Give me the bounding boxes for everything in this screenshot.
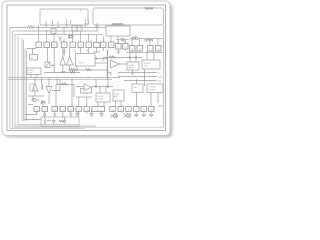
capacitor C13 (63, 117, 66, 124)
wire BC1 down1 (97, 102, 99, 107)
pin 4 (62, 42, 68, 48)
junction dot mb (76, 69, 77, 70)
capacitor C2 (32, 96, 35, 100)
junction dot D (95, 86, 97, 88)
svg-text:DRIVE: DRIVE (98, 99, 104, 101)
svg-text:SUPPLY: SUPPLY (149, 89, 157, 91)
bus divider vertical (107, 50, 109, 79)
op-amp OA1 (111, 60, 120, 68)
junction dot band2 (71, 79, 72, 80)
svg-text:PROT: PROT (129, 67, 135, 69)
wire stub pin9 (103, 36, 105, 42)
junction circle D1 (135, 37, 138, 40)
ferrite bead mark (63, 48, 65, 57)
resistor R2 (145, 40, 153, 42)
wire BC2 down1 (115, 101, 117, 107)
wire y72.5 (44, 72, 80, 74)
block box ML1 (30, 55, 38, 61)
wire Q2 down (48, 95, 50, 105)
resistor R5b (86, 68, 92, 70)
wire crystal left (28, 104, 33, 106)
wire diode row (116, 39, 129, 41)
wire y84.5 (56, 84, 74, 86)
wire stub B1 top (53, 28, 55, 29)
resistor R4 (52, 65, 56, 67)
wire bus A (y=27.5 full) (10, 27, 106, 29)
label above op-amp (110, 56, 116, 58)
bus band line 1 (8, 77, 120, 79)
pin 1 (36, 42, 42, 48)
pin 9 (101, 42, 107, 48)
wire stub pin12 (124, 40, 126, 44)
pin 26 (118, 107, 124, 112)
pin 20 (60, 107, 66, 112)
wire BC1 top1 (99, 87, 101, 94)
svg-text:REG: REG (134, 87, 139, 89)
wire BR1 top (136, 79, 138, 84)
pin 19 (52, 107, 58, 112)
wire stub pin4 (63, 28, 65, 43)
resistor R1 (28, 26, 35, 29)
pin 8 wide (94, 43, 101, 48)
page (2, 1, 170, 136)
wire T1 top (62, 48, 64, 58)
wire ML2 down1 (30, 75, 32, 78)
ground sym 2 (69, 114, 73, 117)
wire y86.5 (92, 86, 113, 88)
wire T1 bottom (62, 65, 64, 73)
ground pin11 (117, 49, 121, 53)
junction dot t3 (80, 27, 81, 28)
diode D1 (130, 36, 137, 41)
junction dot C (135, 57, 137, 59)
wire stub pin8 (96, 35, 98, 43)
wire stub pin2 (46, 31, 48, 42)
op-amp T1 (60, 57, 66, 65)
wire boxA left down (38, 25, 40, 28)
schematic frame (7, 5, 166, 131)
svg-text:SOUND: SOUND (144, 63, 151, 65)
svg-text:22k: 22k (74, 51, 77, 53)
pin 11 (116, 44, 122, 50)
svg-text:V.OUT: V.OUT (114, 93, 120, 95)
capacitor C6 (45, 21, 47, 28)
ground sym 1 (53, 114, 57, 117)
inductor L1 (62, 71, 66, 72)
junction dot t1 (38, 27, 39, 28)
wire stub pin16 (157, 39, 159, 46)
pin 2 (44, 42, 50, 48)
wire wrap1 (10, 28, 85, 129)
resistor R9 (62, 83, 68, 85)
wire into divider 1 (95, 58, 108, 60)
capacitor C7 (51, 21, 53, 26)
pin 29 (141, 107, 147, 112)
resistor R6 (70, 71, 76, 73)
wire pin14 down (139, 51, 141, 53)
wire BC1 down2 (103, 102, 105, 107)
wire T2 top (69, 48, 71, 57)
wire pin15 down (149, 51, 151, 53)
pin 7 (86, 42, 92, 48)
wire pin16 down (157, 51, 159, 53)
wire BR2 down1 (150, 93, 152, 108)
svg-text:X-RAY: X-RAY (129, 64, 135, 67)
pin 6 (78, 42, 84, 48)
block box MB1 (76, 54, 96, 67)
pin 27 (126, 107, 132, 112)
component box K1 (45, 62, 50, 68)
wire MR2 top right (153, 51, 155, 60)
junction dot t4 (46, 30, 47, 31)
jack J1 (111, 114, 118, 118)
pin 23 (84, 107, 90, 112)
wire pin13 down (131, 51, 133, 53)
wire stub pin7 (88, 35, 90, 43)
svg-text:H.OSC: H.OSC (98, 96, 104, 98)
capacitor C3 (90, 110, 94, 117)
pin 14 (137, 46, 143, 52)
cap sym pin29 (142, 112, 146, 118)
wire vcc stub (163, 25, 165, 53)
wire pin10 down (102, 48, 104, 52)
wire stub pin10 (110, 36, 112, 42)
inductor L3 (45, 119, 46, 125)
wire v56 (55, 85, 57, 107)
pin 30 (149, 107, 155, 112)
sub box BL1 (41, 117, 79, 127)
wire below right pins (126, 52, 164, 54)
wire Q1 down (34, 91, 36, 96)
pin 28 (134, 107, 140, 112)
wire pin12 down (124, 49, 126, 51)
svg-text:10k: 10k (86, 51, 89, 53)
capacitor C4 (100, 110, 104, 117)
wire BR2 down2 (157, 93, 159, 104)
capacitor C15 (76, 112, 79, 117)
pin 10 (109, 42, 115, 48)
stub label 1 (118, 72, 157, 74)
svg-text:VCC 12V: VCC 12V (145, 8, 154, 10)
block box BC2 (113, 90, 124, 101)
wire wrap8 (26, 51, 28, 122)
wire MR1 bottom stub (131, 70, 134, 74)
pin 25 (110, 107, 116, 112)
wire stub pin5 (72, 31, 74, 42)
op-amp OA2 (84, 84, 92, 91)
component box B1 (51, 29, 56, 34)
wire pin9 down (93, 48, 100, 53)
wire stub pin15 (149, 39, 151, 46)
pin 21 (68, 107, 74, 112)
wire wrap5 (21, 38, 23, 121)
pin 5 (70, 42, 76, 48)
resistor R8 (59, 120, 64, 122)
wire MB1 top (81, 48, 89, 54)
svg-text:GND: GND (158, 76, 163, 78)
wire band taps (35, 78, 49, 87)
top block box TB1 (106, 26, 130, 36)
pin 3 (52, 42, 58, 48)
wire wrap4 (18, 36, 79, 125)
wire wrap to pin17 (25, 112, 37, 115)
svg-text:POWER: POWER (149, 87, 157, 89)
block box MR2 (142, 60, 160, 69)
wire stub pin11 (117, 36, 119, 44)
svg-text:VCO: VCO (84, 93, 89, 95)
pin 16 (156, 46, 162, 52)
transistor Q1 (32, 84, 38, 91)
cap sym pin30 (149, 112, 153, 118)
wire MR2 top left (146, 51, 148, 60)
page shadow (5, 4, 173, 138)
wire Q2 right (52, 79, 60, 90)
wire OA1 out (119, 63, 127, 65)
capacitor C5 (52, 119, 55, 124)
wire wrap3 (15, 35, 96, 127)
pin 18 (42, 107, 48, 112)
pin 12 (123, 44, 129, 50)
wire into divider 2 (95, 62, 108, 64)
wire wrap6 (23, 40, 25, 121)
wire wrap7 (24, 49, 26, 122)
capacitor C12 (87, 20, 89, 25)
varistor circle (121, 38, 124, 41)
wire stub pin3 (53, 34, 55, 43)
top shield box A (40, 9, 88, 25)
capacitor C10 (69, 20, 71, 25)
block box BC1 (96, 93, 110, 102)
transistor circle Q3 (33, 98, 36, 101)
wire BL1 inner (47, 120, 51, 122)
wire OA2 feedback (81, 88, 92, 94)
junction dot t6 (88, 34, 89, 35)
wire stub pin1 (38, 28, 40, 43)
jack J2 (124, 113, 131, 117)
cap sym pin28 (134, 112, 138, 118)
junction dot A (96, 58, 97, 59)
block box BR1 (132, 84, 143, 93)
wire D1 right (138, 38, 164, 40)
junction dot mr1 (144, 72, 145, 73)
wire R4 vert (53, 48, 55, 73)
stub label 3 (124, 80, 157, 82)
wire T2 bottom (69, 65, 71, 70)
labels bottom small (36, 100, 41, 102)
wire MB1 bottom stub (76, 66, 78, 70)
wire pins down group1 (37, 112, 87, 118)
capacitor C8 (57, 22, 59, 27)
wire tap from band 2 (107, 79, 109, 86)
wire MR1 top left (129, 51, 131, 62)
pin 15 (148, 46, 154, 52)
op-amp T2 (67, 57, 73, 66)
wire BC1 top2 (105, 87, 107, 94)
junction dot mr2 (144, 76, 145, 77)
wire ML2 down2 (36, 75, 38, 78)
wire BR1 down (136, 93, 138, 108)
junction dot t2 (63, 27, 64, 28)
svg-text:SYNC: SYNC (79, 63, 85, 65)
capacitor C11 (84, 19, 86, 28)
wire cross y57.5 (103, 58, 142, 62)
wire pin23 up (78, 97, 80, 107)
capacitor C1 (95, 23, 99, 30)
crystal X1 (40, 101, 46, 105)
capacitor C14 (43, 112, 46, 119)
block box ML2 (27, 68, 41, 75)
bus band line 2 (8, 78, 112, 80)
diac marks node (58, 34, 73, 42)
block box MR1 (127, 62, 139, 70)
pin 24 wide (92, 107, 105, 112)
wire y70 (68, 69, 108, 71)
wire stub pin14 (139, 39, 141, 46)
wire tap from band 1 (95, 79, 97, 86)
wire y96 (28, 95, 44, 97)
transistor Q2 (46, 87, 52, 94)
wire wrap to BL1 (24, 119, 42, 121)
wire BC2 down2 (120, 101, 122, 107)
wire TB1 top (112, 24, 124, 26)
wire MR2 bottom (144, 69, 146, 86)
wire stub pin13 (131, 39, 133, 46)
component box B2b (77, 26, 82, 32)
wire v57 (56, 79, 58, 84)
stub label 2 (118, 76, 157, 78)
wire v74 (73, 85, 75, 98)
wire stub pin6 (80, 31, 82, 42)
wire MR1 top right (135, 51, 137, 62)
pin 13 (130, 46, 136, 52)
inductor L2 (42, 84, 43, 90)
junction dot B (129, 57, 131, 59)
wire y97 (76, 96, 92, 98)
pin 22 (76, 107, 82, 112)
wire right link (158, 105, 164, 107)
capacitor C9 (65, 19, 67, 28)
wire below pin1 left (27, 49, 37, 55)
junction dot band1 (56, 79, 57, 80)
wire stub pin12b (124, 40, 126, 44)
block box BR2 (147, 84, 163, 93)
wire K1 top (47, 48, 49, 63)
wire stub pin11b (117, 40, 119, 44)
wire OA2 in (76, 86, 84, 88)
component box B2a (72, 26, 77, 32)
wire v72 (71, 79, 73, 106)
junction dot band3 (87, 77, 88, 78)
junction dot t5 (72, 30, 73, 31)
wire wrap2 (13, 31, 164, 127)
corner mark (109, 73, 112, 76)
top shield box B (93, 8, 164, 25)
pin 17 (34, 107, 40, 112)
junction dot E (107, 86, 109, 88)
resistor R5 (71, 68, 77, 70)
wire bus B (y=31) (22, 30, 98, 32)
component rect Q1 (30, 84, 34, 91)
wire pin24 up (86, 97, 88, 107)
wire bus C (y=34.5) (27, 34, 104, 36)
